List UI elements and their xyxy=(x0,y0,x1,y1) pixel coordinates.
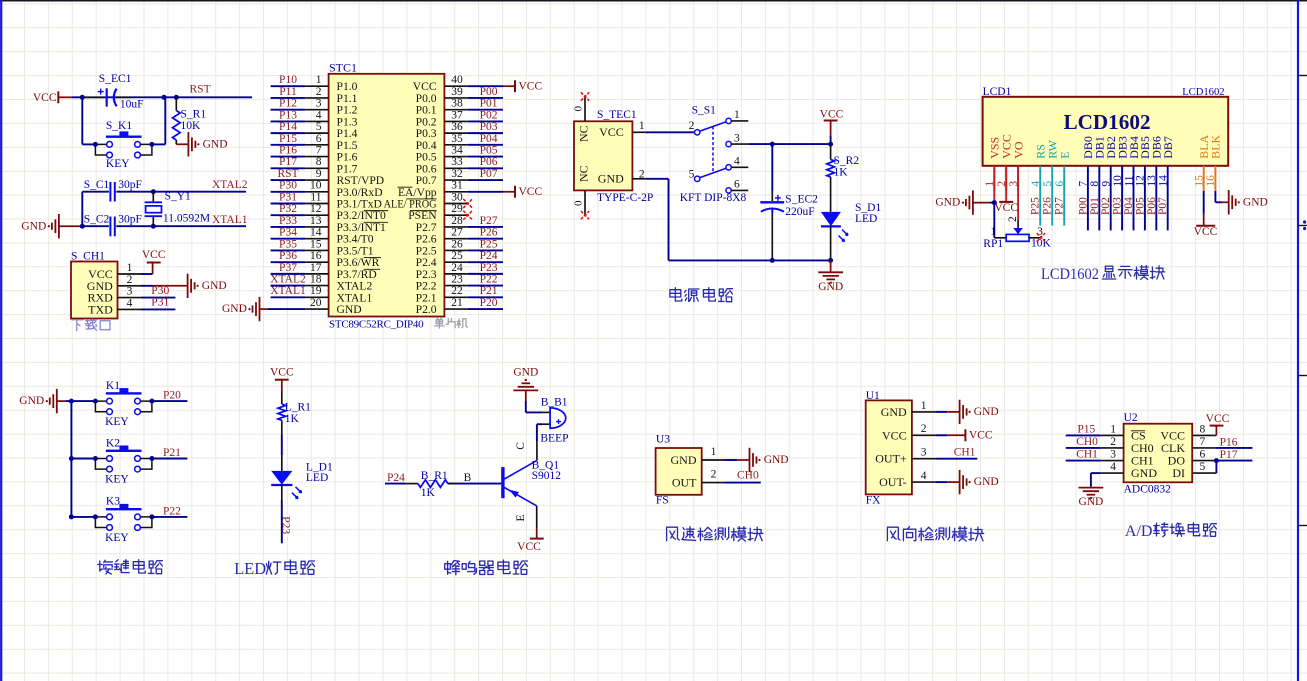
svg-text:BEEP: BEEP xyxy=(540,433,568,445)
svg-text:P16: P16 xyxy=(279,144,297,156)
wire net P12 (STC1 pin 3) xyxy=(271,98,306,110)
svg-text:P11: P11 xyxy=(279,86,297,98)
svg-text:P10: P10 xyxy=(279,74,297,86)
svg-text:KEY: KEY xyxy=(105,416,129,428)
ground GND (U1 pin1) xyxy=(935,400,998,424)
wire net P10 (STC1 pin 1) xyxy=(271,74,306,86)
no-ERC marker S_TEC1 bottom xyxy=(581,211,589,219)
ground GND (power circuit) xyxy=(818,260,843,292)
svg-text:GND: GND xyxy=(974,476,999,488)
no-ERC marker S_TEC1 top xyxy=(581,92,589,100)
pin 6 P1.5 of STC1 xyxy=(305,133,357,152)
svg-text:VO: VO xyxy=(1011,141,1025,159)
switch S_S1 KFT DIP-8X8 xyxy=(680,105,749,204)
svg-text:P35: P35 xyxy=(279,238,297,250)
svg-text:1: 1 xyxy=(711,446,717,458)
wire net P15 (STC1 pin 6) xyxy=(271,133,306,145)
svg-text:P04: P04 xyxy=(1123,197,1135,215)
pin 3 P1.2 of STC1 xyxy=(305,98,357,117)
svg-text:K1: K1 xyxy=(106,380,120,392)
pin 4 TXD of S_CH1 xyxy=(88,297,141,316)
power port VCC (reset circuit) xyxy=(33,91,72,104)
ground GND (reset) xyxy=(176,132,227,156)
wire net P00 (LCD pin 7) xyxy=(1077,191,1089,230)
svg-text:P32: P32 xyxy=(279,203,297,215)
wire net P07 (LCD pin 14) xyxy=(1157,191,1169,230)
wire net P30 (STC1 pin 10) xyxy=(271,180,306,192)
svg-text:OUT: OUT xyxy=(672,476,697,490)
mcu U STC1 body xyxy=(329,60,445,316)
pin 9 RST/VPD of STC1 xyxy=(305,168,384,187)
resistor L_R1 1K xyxy=(278,391,311,435)
pin 23 P2.2 of STC1 xyxy=(416,274,468,293)
wire net P14 (STC1 pin 5) xyxy=(271,121,306,133)
adc U2 ADC0832 body xyxy=(1124,412,1193,495)
svg-text:LCD1602: LCD1602 xyxy=(1041,264,1099,283)
svg-text:S_EC1: S_EC1 xyxy=(99,73,132,85)
svg-text:P00: P00 xyxy=(1077,197,1089,215)
svg-text:P06: P06 xyxy=(480,156,498,168)
svg-text:S9012: S9012 xyxy=(532,470,562,482)
svg-text:3: 3 xyxy=(921,447,927,459)
pin 5 DI of U2 xyxy=(1172,461,1215,480)
pin 5 P1.4 of STC1 xyxy=(305,121,357,140)
push button K2 KEY xyxy=(93,437,154,485)
pin 1 VCC of S_TEC1 xyxy=(599,120,646,139)
svg-text:31: 31 xyxy=(451,180,463,192)
svg-text:1: 1 xyxy=(316,74,322,86)
wire net CH1 (U2 pin3) xyxy=(1066,449,1101,461)
svg-text:35: 35 xyxy=(451,133,463,145)
junction dots ground rail xyxy=(770,258,833,263)
lcd LCD1 LCD1602 body xyxy=(983,86,1229,166)
wire net P16 (U2 pin7) xyxy=(1215,436,1252,448)
svg-text:VCC: VCC xyxy=(519,186,543,198)
pin 34 P0.5 of STC1 xyxy=(416,144,468,163)
pin 12 P3.2/INT0 of STC1 xyxy=(305,203,388,222)
svg-text:P04: P04 xyxy=(480,133,498,145)
connector S_CH1 xyxy=(71,251,118,319)
wire net XTAL2 (STC1 pin 18) xyxy=(270,274,306,286)
svg-text:CH1: CH1 xyxy=(954,447,976,459)
svg-text:P20: P20 xyxy=(480,297,498,309)
pin 20 GND of STC1 xyxy=(305,297,361,316)
power port VCC (LCD pin2) xyxy=(994,166,1018,214)
svg-text:P24: P24 xyxy=(387,472,405,484)
svg-text:19: 19 xyxy=(310,285,322,297)
label MCU chinese xyxy=(435,318,445,328)
svg-text:KEY: KEY xyxy=(105,532,129,544)
svg-text:U3: U3 xyxy=(656,434,670,446)
wire reset right branch from key up xyxy=(152,97,165,144)
svg-text:GND: GND xyxy=(222,303,247,315)
wire net P24 xyxy=(385,472,405,484)
svg-text:12: 12 xyxy=(310,203,322,215)
wire net P36 (STC1 pin 16) xyxy=(271,250,306,262)
pin 7 P1.6 of STC1 xyxy=(305,144,357,163)
wire net P22 (STC1 pin 23) xyxy=(468,274,503,286)
wire net P02 (STC1 pin 37) xyxy=(468,109,503,121)
svg-text:P03: P03 xyxy=(1112,197,1124,215)
svg-text:GND: GND xyxy=(1078,496,1103,508)
pin 22 P2.1 of STC1 xyxy=(416,285,468,304)
svg-text:P25: P25 xyxy=(1030,197,1042,215)
wire net P01 (LCD pin 8) xyxy=(1089,191,1101,230)
wire net P20 (STC1 pin 21) xyxy=(468,297,503,309)
svg-text:P33: P33 xyxy=(279,215,297,227)
pin 7 DB0 of LCD1 xyxy=(1078,136,1096,191)
svg-text:VCC: VCC xyxy=(517,541,541,553)
svg-text:P13: P13 xyxy=(279,109,297,121)
wire P30 (S_CH1 pin3) xyxy=(141,285,175,298)
svg-text:K2: K2 xyxy=(106,437,120,449)
power port VCC (LED circuit) xyxy=(270,366,294,391)
svg-text:P14: P14 xyxy=(279,121,297,133)
pin 24 P2.3 of STC1 xyxy=(416,262,468,281)
svg-text:VCC: VCC xyxy=(969,430,993,442)
wire net P15 (U2 pin1) xyxy=(1066,424,1101,436)
pin 18 XTAL2 of STC1 xyxy=(305,274,372,293)
svg-text:40: 40 xyxy=(451,74,463,86)
pin 15 BLA of LCD1 xyxy=(1194,134,1212,191)
wire net P20 xyxy=(152,390,188,402)
svg-text:GND: GND xyxy=(513,366,538,378)
svg-text:36: 36 xyxy=(451,121,463,133)
wire collector xyxy=(515,424,542,460)
svg-text:10: 10 xyxy=(310,180,322,192)
pin 8 VCC of U2 xyxy=(1160,423,1215,442)
svg-text:P21: P21 xyxy=(163,447,181,459)
pin 3 RXD of S_CH1 xyxy=(87,286,141,305)
svg-text:P17: P17 xyxy=(1220,449,1238,461)
ground GND (LCD pin1 VSS) xyxy=(935,166,996,215)
svg-text:S_S1: S_S1 xyxy=(692,105,717,117)
pin 10 P3.0/RxD of STC1 xyxy=(305,180,382,199)
wire net P22 xyxy=(152,505,188,517)
pin 9 DB2 of LCD1 xyxy=(1101,136,1119,191)
svg-text:B: B xyxy=(464,472,472,484)
wire XTAL2 row xyxy=(82,191,246,193)
pin 3 OUT+ of U1 xyxy=(875,447,935,466)
power port VCC (power circuit) xyxy=(820,109,844,145)
svg-text:P05: P05 xyxy=(1134,197,1146,215)
svg-text:BLK: BLK xyxy=(1209,134,1223,158)
svg-text:NC: NC xyxy=(577,165,591,182)
no-ERC marker pin 30 xyxy=(463,199,472,208)
svg-text:1K: 1K xyxy=(285,413,300,425)
power port VCC (STC1 pin 31) xyxy=(468,186,543,198)
wire net P17 (U2 pin6) xyxy=(1214,449,1253,463)
pin 3 CH1 of U2 xyxy=(1101,449,1154,468)
svg-text:10K: 10K xyxy=(1031,238,1052,250)
wire net P05 (LCD pin 12) xyxy=(1134,191,1146,230)
svg-text:XTAL1: XTAL1 xyxy=(212,214,248,226)
svg-text:P07: P07 xyxy=(1157,197,1169,215)
svg-text:LED: LED xyxy=(234,559,266,578)
wire LCD VO to RP1 wiper xyxy=(1017,166,1019,228)
svg-text:S_C2: S_C2 xyxy=(84,214,110,226)
wire net P24 (STC1 pin 25) xyxy=(468,250,503,262)
wire crystal left vertical xyxy=(80,192,85,229)
wire net P23 xyxy=(279,500,291,543)
pin 8 DB1 of LCD1 xyxy=(1089,136,1107,191)
svg-text:2: 2 xyxy=(316,86,322,98)
ground GND (U3 pin1) xyxy=(725,448,789,472)
ground GND (U1 pin4) xyxy=(935,470,998,494)
pin 21 P2.0 of STC1 xyxy=(416,297,468,316)
wire net P26 (STC1 pin 27) xyxy=(468,227,503,239)
svg-text:GND: GND xyxy=(19,395,44,407)
svg-text:S_R2: S_R2 xyxy=(834,155,860,167)
power port VCC (S_CH1 pin1) xyxy=(141,249,166,274)
svg-text:P07: P07 xyxy=(480,168,498,180)
svg-text:4: 4 xyxy=(316,109,322,121)
svg-text:34: 34 xyxy=(451,144,463,156)
svg-text:8: 8 xyxy=(1200,423,1206,435)
wire L_R1 to L_D1 xyxy=(281,435,283,455)
pin 36 P0.3 of STC1 xyxy=(416,121,468,140)
svg-text:VCC: VCC xyxy=(599,125,624,139)
pin 11 DB4 of LCD1 xyxy=(1123,136,1141,191)
ground GND (crystal) xyxy=(21,214,82,238)
svg-text:NC: NC xyxy=(577,125,591,142)
pin 14 P3.4/T0 of STC1 xyxy=(305,227,374,246)
pin 16 BLK of LCD1 xyxy=(1205,134,1223,191)
pin 2 OUT of U3 xyxy=(672,469,725,490)
svg-text:OUT-: OUT- xyxy=(879,475,907,489)
pin 2 VCC of LCD1 xyxy=(996,134,1014,191)
svg-text:P15: P15 xyxy=(279,133,297,145)
svg-text:6: 6 xyxy=(316,133,322,145)
push button S_K1 KEY xyxy=(93,120,154,170)
title key circuit xyxy=(98,560,113,574)
wire net P37 (STC1 pin 17) xyxy=(271,262,306,274)
svg-text:5: 5 xyxy=(1200,461,1206,473)
svg-text:21: 21 xyxy=(451,297,463,309)
wire net P23 (STC1 pin 24) xyxy=(468,262,503,274)
label download port xyxy=(72,320,84,331)
wire net P13 (STC1 pin 4) xyxy=(271,109,306,121)
svg-text:4: 4 xyxy=(1110,461,1116,473)
svg-text:P12: P12 xyxy=(279,98,297,110)
svg-text:P20: P20 xyxy=(163,390,181,402)
pin 6 E of LCD1 xyxy=(1054,151,1072,191)
wire net XTAL1 (STC1 pin 19) xyxy=(270,285,306,297)
module U3 FS body xyxy=(656,434,702,507)
resistor S_R1 10K xyxy=(173,97,207,144)
wire net P01 (STC1 pin 38) xyxy=(468,98,503,110)
svg-text:LCD1602: LCD1602 xyxy=(1063,110,1150,134)
svg-text:P23: P23 xyxy=(279,516,291,534)
svg-text:20: 20 xyxy=(310,297,322,309)
svg-text:11: 11 xyxy=(310,191,321,203)
svg-text:22: 22 xyxy=(451,285,463,297)
wire switch pin3 to VCC node xyxy=(748,142,833,147)
svg-text:30pF: 30pF xyxy=(118,179,142,191)
pin 35 P0.4 of STC1 xyxy=(416,133,468,152)
pin 30 ALE/ PROG of STC1 xyxy=(384,191,468,210)
svg-text:FS: FS xyxy=(656,495,669,507)
svg-text:GND: GND xyxy=(598,171,624,185)
svg-text:P24: P24 xyxy=(480,250,498,262)
pin 1 P1.0 of STC1 xyxy=(305,74,357,93)
pin 38 P0.1 of STC1 xyxy=(416,98,468,117)
svg-text:P15: P15 xyxy=(1077,424,1095,436)
pin 1 CS of U2 xyxy=(1101,423,1146,442)
wire reset left branch down to key xyxy=(82,97,95,144)
svg-text:3: 3 xyxy=(1110,449,1116,461)
wire VCC to S_EC1 and RST xyxy=(72,96,252,98)
svg-text:7: 7 xyxy=(1200,436,1206,448)
svg-text:RST: RST xyxy=(277,168,298,180)
ground GND (U2 pin4) xyxy=(1078,473,1103,508)
no-ERC marker RP1 pin3 xyxy=(1037,233,1045,241)
svg-text:DI: DI xyxy=(1172,466,1185,480)
wire emitter to VCC xyxy=(515,506,544,553)
svg-text:1: 1 xyxy=(1110,423,1116,435)
svg-text:S_K1: S_K1 xyxy=(106,120,132,132)
pin 31 EA/Vpp of STC1 xyxy=(398,180,468,199)
svg-text:GND: GND xyxy=(671,453,697,467)
svg-text:P26: P26 xyxy=(1042,197,1054,215)
svg-text:GND: GND xyxy=(203,138,228,150)
svg-text:16: 16 xyxy=(310,250,322,262)
svg-text:CH0: CH0 xyxy=(737,470,759,482)
ground GND (S_CH1 pin2) xyxy=(141,274,227,298)
svg-text:S_EC2: S_EC2 xyxy=(785,194,818,206)
svg-text:S_C1: S_C1 xyxy=(84,179,110,191)
buzzer B_B1 BEEP xyxy=(540,397,568,445)
svg-text:8: 8 xyxy=(316,156,322,168)
svg-text:1: 1 xyxy=(639,120,645,132)
svg-text:1K: 1K xyxy=(421,487,436,499)
wire net P33 (STC1 pin 13) xyxy=(271,215,306,227)
svg-text:1: 1 xyxy=(127,262,133,274)
svg-text:S_R1: S_R1 xyxy=(181,108,207,120)
potentiometer RP1 10K xyxy=(983,203,1051,250)
junction dots reset node xyxy=(80,95,179,100)
svg-text:3: 3 xyxy=(127,286,133,298)
wire net P32 (STC1 pin 12) xyxy=(271,203,306,215)
svg-text:GND: GND xyxy=(1131,466,1157,480)
svg-text:P31: P31 xyxy=(151,297,169,309)
svg-text:1K: 1K xyxy=(834,167,849,179)
svg-text:LED: LED xyxy=(306,472,328,484)
svg-text:10uF: 10uF xyxy=(120,99,144,111)
svg-text:GND: GND xyxy=(974,406,999,418)
svg-text:P30: P30 xyxy=(279,180,297,192)
pin 10 DB3 of LCD1 xyxy=(1112,136,1130,191)
no-ERC marker pin 29 xyxy=(463,211,472,220)
power port VCC (LCD pin15 BLA) xyxy=(1194,191,1218,238)
power port VCC (STC1 pin 40) xyxy=(468,80,543,92)
svg-text:TXD: TXD xyxy=(88,302,113,316)
svg-text:0: 0 xyxy=(573,200,585,206)
svg-text:5: 5 xyxy=(316,121,322,133)
wire net P00 (STC1 pin 39) xyxy=(468,86,503,98)
svg-text:ADC0832: ADC0832 xyxy=(1124,483,1172,495)
svg-text:37: 37 xyxy=(451,109,463,121)
svg-text:VCC: VCC xyxy=(1194,226,1218,238)
wire net P26 (LCD pin 5) xyxy=(1042,191,1054,226)
wire net CH0 (U2 pin2) xyxy=(1066,436,1101,448)
wire S_TEC1 GND to ground rail xyxy=(646,179,831,261)
wire net P27 (LCD pin 6) xyxy=(1054,191,1066,226)
pin 1 VCC of S_CH1 xyxy=(88,262,141,281)
pin 4 RS of LCD1 xyxy=(1030,144,1048,191)
pin 7 CLK of U2 xyxy=(1161,436,1215,455)
pin 2 GND of S_CH1 xyxy=(87,274,141,293)
svg-text:7: 7 xyxy=(316,144,322,156)
svg-text:2: 2 xyxy=(1007,216,1019,222)
pin 2 GND of S_TEC1 xyxy=(598,168,646,185)
svg-text:5: 5 xyxy=(689,168,695,180)
svg-text:P01: P01 xyxy=(1089,197,1101,215)
pin 0 bottom of S_TEC1 xyxy=(573,190,586,214)
svg-text:P01: P01 xyxy=(480,98,498,110)
svg-text:GND: GND xyxy=(21,220,46,232)
svg-text:B_R1: B_R1 xyxy=(421,470,448,482)
svg-text:18: 18 xyxy=(310,274,322,286)
pin 32 P0.7 of STC1 xyxy=(416,168,468,187)
wire XTAL1 row xyxy=(82,225,246,227)
capacitor S_EC2 220uF xyxy=(760,144,818,260)
svg-text:6: 6 xyxy=(734,179,740,191)
svg-text:S_Y1: S_Y1 xyxy=(165,191,191,203)
svg-text:30pF: 30pF xyxy=(118,214,142,226)
svg-text:11.0592M: 11.0592M xyxy=(163,213,210,225)
pin 1 GND of U1 xyxy=(881,400,936,419)
svg-text:GND: GND xyxy=(337,303,362,316)
svg-text:LED: LED xyxy=(855,213,877,225)
svg-text:VCC: VCC xyxy=(142,249,166,261)
svg-text:24: 24 xyxy=(451,262,463,274)
ground GND (LCD pin16 BLK) xyxy=(1215,190,1267,214)
pin 13 DB6 of LCD1 xyxy=(1146,136,1164,191)
svg-text:P26: P26 xyxy=(480,227,498,239)
wire net P06 (LCD pin 13) xyxy=(1146,191,1158,230)
pin 5 RW of LCD1 xyxy=(1042,139,1060,191)
pin 4 P1.3 of STC1 xyxy=(305,109,357,128)
svg-text:14: 14 xyxy=(310,227,322,239)
svg-text:P30: P30 xyxy=(151,285,169,297)
pin 2 VCC of U1 xyxy=(882,423,935,442)
svg-text:17: 17 xyxy=(310,262,322,274)
svg-text:VCC: VCC xyxy=(1206,413,1230,425)
svg-text:P22: P22 xyxy=(480,274,498,286)
power port VCC (U1 pin2) xyxy=(935,429,993,441)
svg-text:XTAL1: XTAL1 xyxy=(270,285,306,297)
svg-text:OUT+: OUT+ xyxy=(875,452,907,466)
wire net P35 (STC1 pin 15) xyxy=(271,238,306,250)
svg-text:27: 27 xyxy=(451,227,463,239)
wire net P27 (STC1 pin 28) xyxy=(468,215,503,227)
svg-text:GND: GND xyxy=(818,281,843,293)
pin 2 CH0 of U2 xyxy=(1101,436,1154,455)
wire net P31 (STC1 pin 11) xyxy=(271,191,306,203)
pin 11 P3.1/TxD of STC1 xyxy=(305,191,382,210)
wire base xyxy=(448,472,501,484)
svg-text:K3: K3 xyxy=(106,496,120,508)
wire net P21 xyxy=(152,447,188,459)
svg-text:VCC: VCC xyxy=(270,366,294,378)
svg-text:39: 39 xyxy=(451,86,463,98)
svg-text:6: 6 xyxy=(1200,449,1206,461)
svg-text:GND: GND xyxy=(764,454,789,466)
title wind direction module xyxy=(887,527,900,541)
svg-text:XTAL2: XTAL2 xyxy=(270,274,306,286)
sheet border left edge xyxy=(0,0,2,681)
